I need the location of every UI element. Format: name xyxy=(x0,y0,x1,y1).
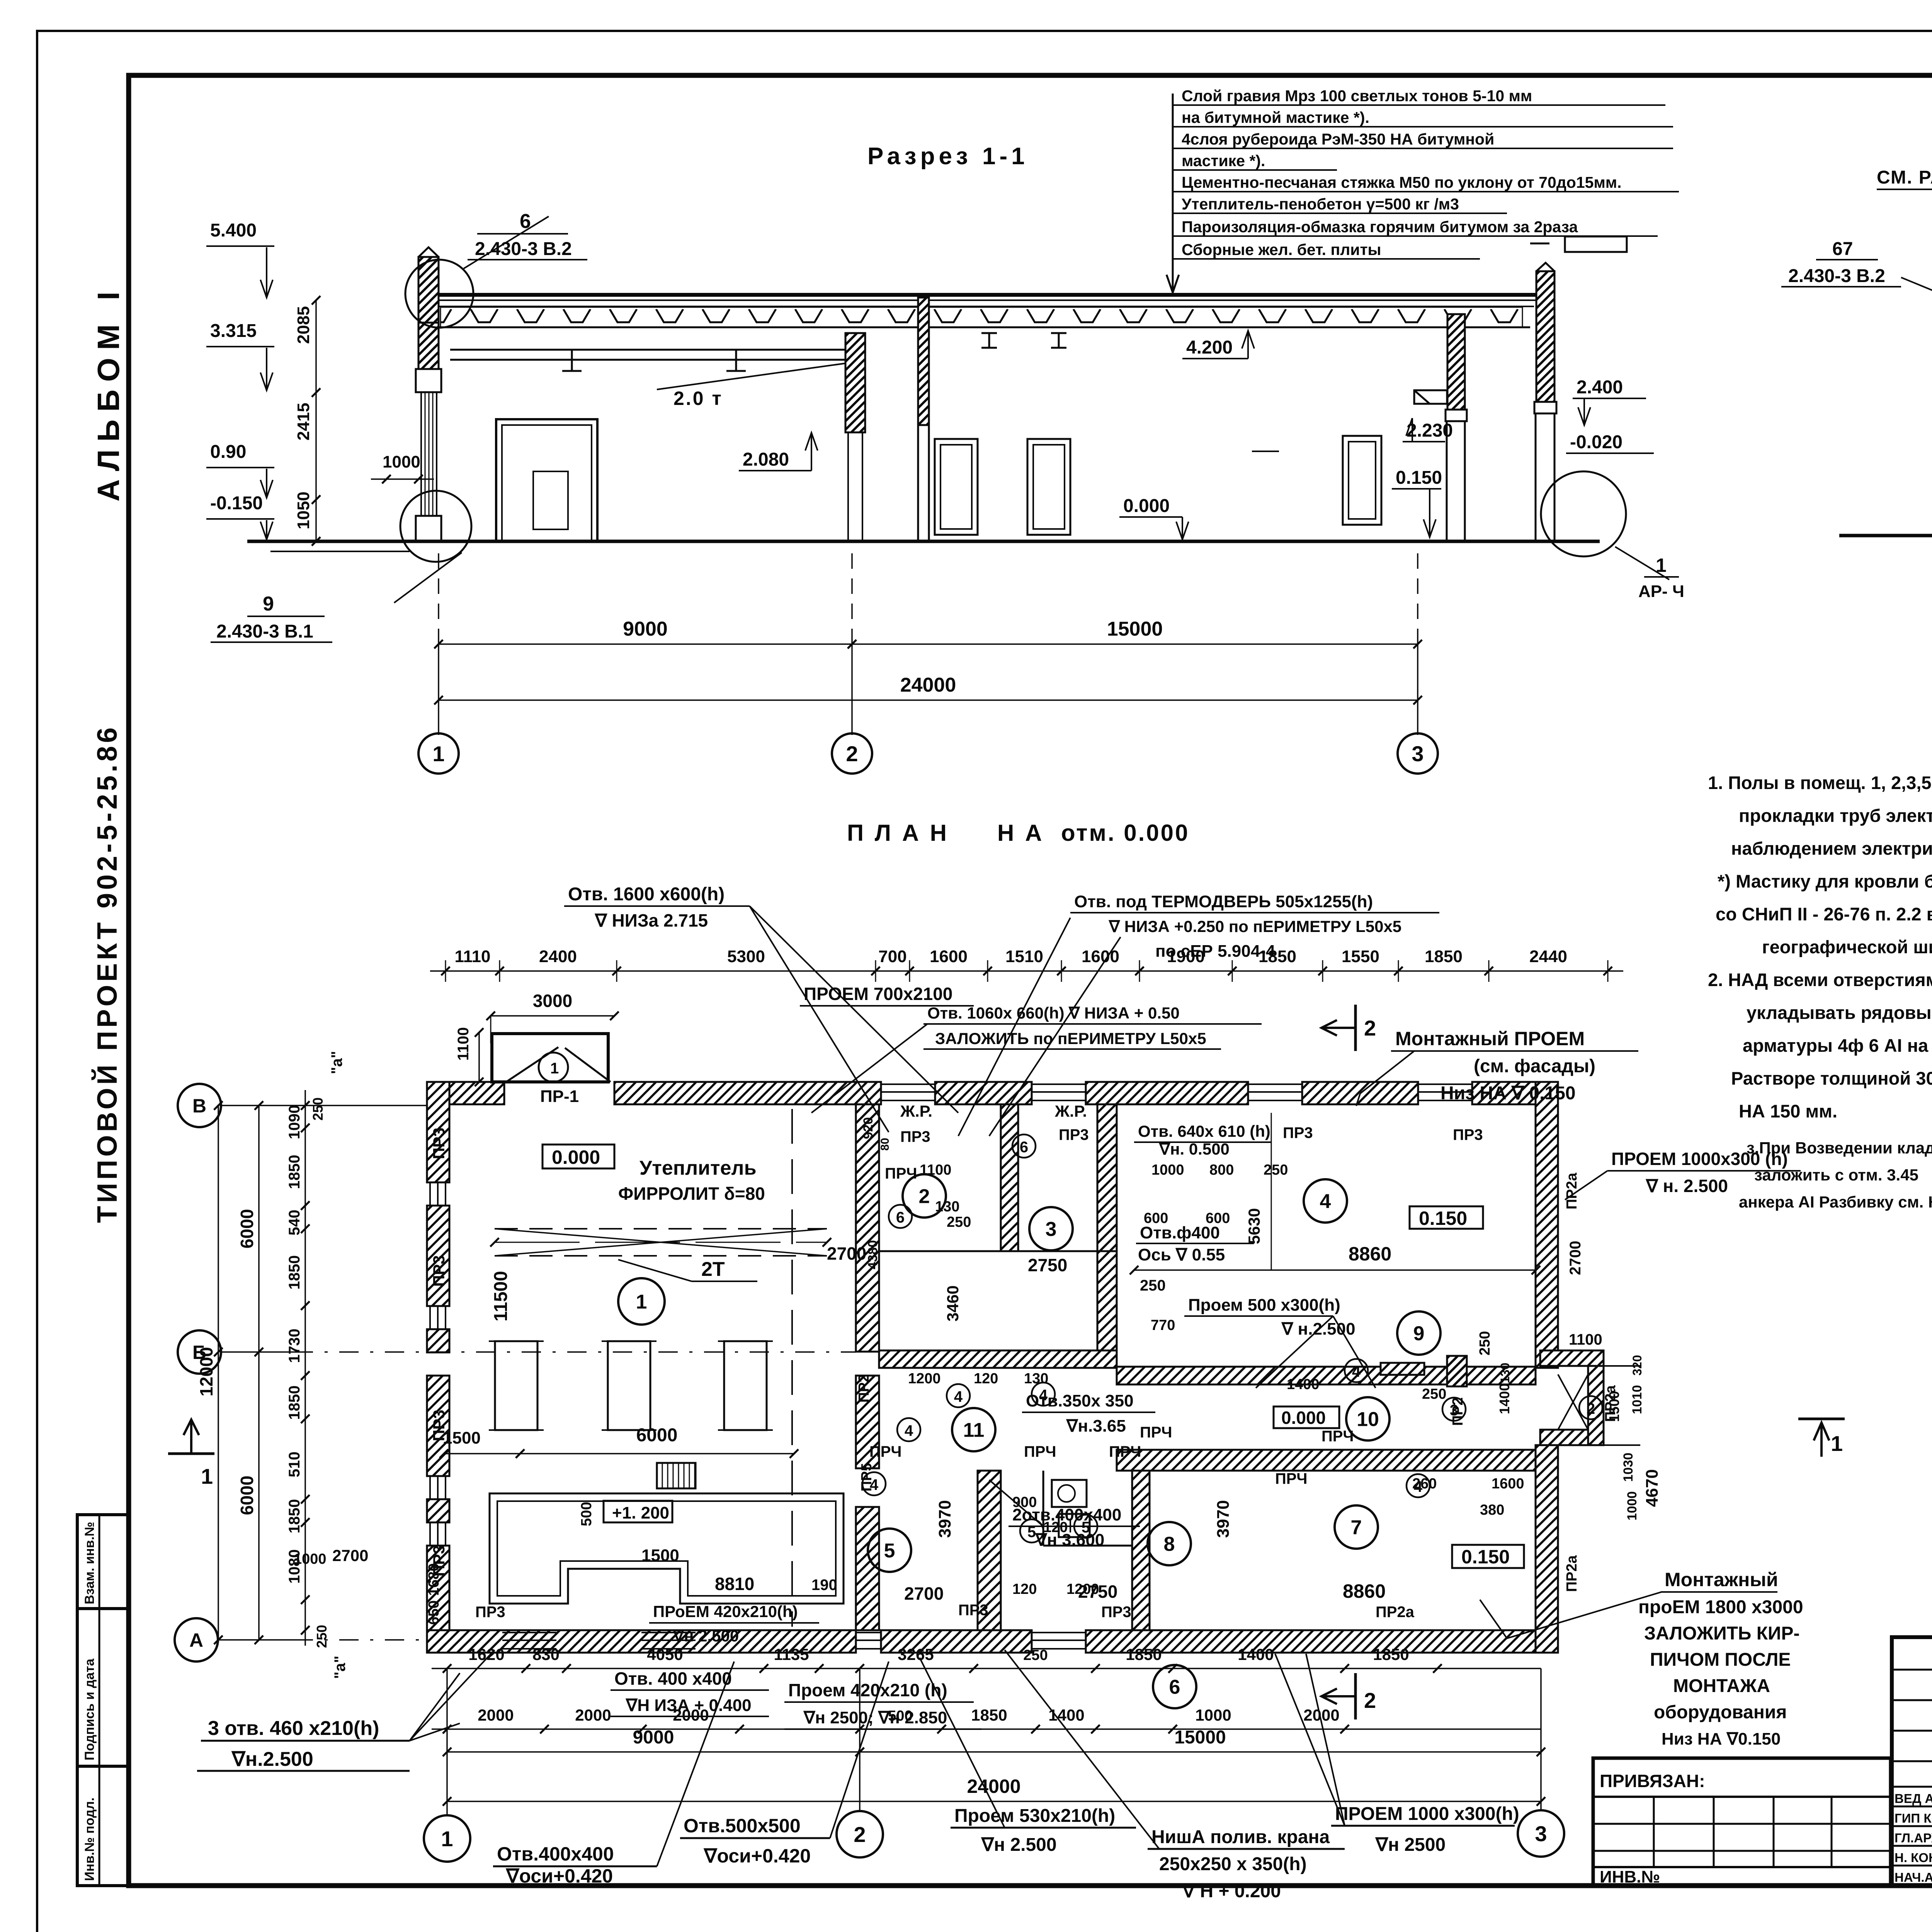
svg-text:Отв.400х400: Отв.400х400 xyxy=(497,1843,614,1865)
insulation legend box xyxy=(1565,236,1627,252)
svg-text:наблюдением электрика.: наблюдением электрика. xyxy=(1731,838,1932,859)
toilet fixtures xyxy=(1052,1480,1087,1507)
svg-text:-0.020: -0.020 xyxy=(1570,432,1622,452)
svg-text:1850: 1850 xyxy=(286,1499,303,1534)
vertical dim chain 2085/2415/1050 xyxy=(315,300,317,541)
svg-text:11500: 11500 xyxy=(491,1271,511,1321)
см. разрез 1-1 leader xyxy=(1877,189,1932,190)
svg-text:24000: 24000 xyxy=(900,674,956,696)
svg-text:3: 3 xyxy=(1046,1218,1057,1241)
svg-text:Н А: Н А xyxy=(997,820,1044,846)
svg-text:1000: 1000 xyxy=(1625,1491,1639,1520)
svg-text:8: 8 xyxy=(1164,1533,1175,1556)
plan inner walls bottom rooms xyxy=(978,1471,1001,1630)
svg-text:1000: 1000 xyxy=(1151,1162,1184,1178)
svg-text:заложить с отм. 3.45: заложить с отм. 3.45 xyxy=(1754,1166,1918,1184)
svg-text:ПРОЕМ 1000 х300(h): ПРОЕМ 1000 х300(h) xyxy=(1335,1804,1519,1824)
svg-text:мастике *).: мастике *). xyxy=(1182,152,1265,170)
svg-text:1500: 1500 xyxy=(641,1546,679,1565)
svg-text:250х250 х 350(h): 250х250 х 350(h) xyxy=(1159,1854,1307,1874)
section 1-1 right outer parapet wall xyxy=(1536,271,1554,402)
svg-text:Проем 420х210 (h): Проем 420х210 (h) xyxy=(788,1680,947,1700)
svg-text:510: 510 xyxy=(286,1452,303,1478)
machine hall crane rails dashed xyxy=(495,1228,827,1230)
svg-text:8810: 8810 xyxy=(715,1574,754,1594)
svg-text:ПРоЕМ 420х210(h): ПРоЕМ 420х210(h) xyxy=(653,1602,798,1621)
svg-text:Ж.Р.: Ж.Р. xyxy=(900,1102,932,1120)
svg-text:250: 250 xyxy=(1422,1386,1446,1402)
svg-text:∇н.3.65: ∇н.3.65 xyxy=(1066,1417,1126,1435)
svg-text:130: 130 xyxy=(1024,1371,1048,1387)
section 1-1 crane beam xyxy=(450,349,846,351)
svg-text:380: 380 xyxy=(1480,1502,1504,1518)
section 1-1 dim 24000 xyxy=(439,699,1418,701)
svg-text:-0.150: -0.150 xyxy=(210,493,263,514)
svg-text:1510: 1510 xyxy=(1005,947,1043,966)
svg-text:1600: 1600 xyxy=(1082,947,1119,966)
svg-text:0.90: 0.90 xyxy=(210,442,246,462)
title block main frame xyxy=(1892,1637,1932,1886)
svg-text:9000: 9000 xyxy=(623,618,668,640)
svg-text:1730: 1730 xyxy=(286,1329,303,1363)
svg-text:ПИЧОМ ПОСЛЕ: ПИЧОМ ПОСЛЕ xyxy=(1650,1650,1791,1670)
svg-text:+1. 200: +1. 200 xyxy=(612,1503,669,1522)
svg-text:ПР3: ПР3 xyxy=(430,1410,448,1441)
svg-text:ПР2а: ПР2а xyxy=(1376,1604,1415,1621)
svg-text:1400: 1400 xyxy=(1287,1376,1320,1393)
svg-text:ПР3: ПР3 xyxy=(1059,1126,1089,1143)
svg-text:830: 830 xyxy=(532,1645,560,1663)
plan dim 24000 xyxy=(447,1801,1541,1802)
svg-text:∇Н ИЗА + 0.400: ∇Н ИЗА + 0.400 xyxy=(625,1696,752,1715)
svg-text:2: 2 xyxy=(919,1185,930,1208)
machine hall platform +1.200 xyxy=(490,1493,844,1604)
svg-text:1850: 1850 xyxy=(1425,947,1463,966)
svg-text:∇н 2.500: ∇н 2.500 xyxy=(672,1627,739,1645)
title block stamp rows xyxy=(1892,1786,1932,1788)
svg-text:0.150: 0.150 xyxy=(1419,1207,1467,1229)
svg-text:2. НАД всеми отверстиями ши: 2. НАД всеми отверстиями шириной более 6… xyxy=(1708,969,1932,990)
svg-text:1600: 1600 xyxy=(930,947,968,966)
plan corridor walls xyxy=(1117,1367,1536,1384)
plan dim 3000 bump xyxy=(491,1015,614,1017)
svg-text:8860: 8860 xyxy=(1349,1243,1391,1265)
svg-text:ПР3: ПР3 xyxy=(430,1545,448,1577)
svg-text:2отв.400х400: 2отв.400х400 xyxy=(1012,1505,1121,1524)
svg-text:ГЛ.АРХ.пр: ГЛ.АРХ.пр xyxy=(1895,1831,1932,1845)
svg-text:0.000: 0.000 xyxy=(1281,1408,1326,1428)
svg-text:2000: 2000 xyxy=(478,1706,514,1724)
svg-text:ПРЧ: ПРЧ xyxy=(1321,1428,1354,1445)
plan text 0.000 machine hall xyxy=(543,1145,614,1168)
svg-text:11: 11 xyxy=(963,1419,985,1442)
svg-text:2750: 2750 xyxy=(1028,1255,1067,1275)
svg-text:1850: 1850 xyxy=(286,1255,303,1290)
svg-text:отм. 0.000: отм. 0.000 xyxy=(1061,820,1189,846)
svg-text:А: А xyxy=(189,1629,203,1651)
svg-text:арматуры 4ф 6 АI на цементно-: арматуры 4ф 6 АI на цементно-песчаном xyxy=(1743,1035,1932,1056)
svg-text:2415: 2415 xyxy=(294,403,313,440)
svg-text:НА 150 мм.: НА 150 мм. xyxy=(1739,1101,1837,1121)
svg-text:1400: 1400 xyxy=(1048,1706,1084,1724)
svg-text:Отв. под ТЕРМОДВЕРЬ 505х1255(h: Отв. под ТЕРМОДВЕРЬ 505х1255(h) xyxy=(1074,892,1373,911)
svg-text:"а": "а" xyxy=(332,1656,349,1679)
svg-text:В: В xyxy=(192,1095,206,1117)
svg-text:1000: 1000 xyxy=(1195,1706,1231,1724)
svg-text:на битумной мастике *).: на битумной мастике *). xyxy=(1182,109,1369,126)
svg-text:2.430-3 В.2: 2.430-3 В.2 xyxy=(1788,266,1885,286)
plan text 0.150 room 7 xyxy=(1452,1545,1524,1568)
svg-text:Монтажный ПРОЕМ: Монтажный ПРОЕМ xyxy=(1395,1028,1585,1049)
svg-text:3: 3 xyxy=(1412,742,1423,766)
svg-text:6000: 6000 xyxy=(636,1425,678,1446)
svg-text:3000: 3000 xyxy=(533,991,572,1011)
svg-text:24000: 24000 xyxy=(967,1776,1020,1797)
svg-text:1500: 1500 xyxy=(443,1429,481,1447)
svg-text:250: 250 xyxy=(1477,1331,1493,1355)
svg-text:1: 1 xyxy=(1831,1431,1843,1456)
svg-text:Отв. 1600 х600(h): Отв. 1600 х600(h) xyxy=(568,884,724,905)
svg-text:1: 1 xyxy=(432,742,444,766)
svg-text:∇оси+0.420: ∇оси+0.420 xyxy=(505,1865,613,1887)
svg-text:4: 4 xyxy=(954,1388,963,1405)
svg-text:∇н 2500: ∇н 2500 xyxy=(1375,1835,1446,1855)
svg-text:6000: 6000 xyxy=(237,1476,257,1515)
svg-text:1030: 1030 xyxy=(1621,1452,1636,1482)
section 1-1 lower dim lines 9000 / 15000 xyxy=(439,643,852,645)
svg-text:15000: 15000 xyxy=(1107,618,1163,640)
svg-text:250: 250 xyxy=(947,1214,971,1230)
machine hall lower dim 1500 6000 xyxy=(444,1453,520,1454)
svg-text:Проем 530х210(h): Проем 530х210(h) xyxy=(954,1806,1115,1826)
svg-text:250: 250 xyxy=(1023,1647,1048,1663)
plan bottom dim chains xyxy=(432,1668,1117,1669)
svg-text:1850: 1850 xyxy=(971,1706,1007,1724)
svg-text:8860: 8860 xyxy=(1343,1580,1386,1602)
svg-text:Низ НА ∇ 0.150: Низ НА ∇ 0.150 xyxy=(1440,1083,1576,1104)
svg-text:1: 1 xyxy=(201,1464,213,1488)
svg-text:МОНТАЖА: МОНТАЖА xyxy=(1673,1676,1770,1696)
svg-text:130: 130 xyxy=(1498,1363,1512,1383)
svg-text:320: 320 xyxy=(1630,1355,1644,1376)
section 2-2 ground line xyxy=(1839,534,1932,537)
привязан box xyxy=(1593,1758,1891,1886)
svg-text:1: 1 xyxy=(550,1060,559,1077)
svg-text:1100: 1100 xyxy=(920,1162,951,1178)
svg-text:9: 9 xyxy=(263,593,274,615)
svg-text:1400: 1400 xyxy=(1238,1645,1274,1663)
svg-text:80: 80 xyxy=(879,1138,891,1151)
svg-text:0.150: 0.150 xyxy=(1396,468,1442,488)
section 1-1 wall on axis 2 xyxy=(918,298,929,425)
svg-text:анкера АI Разбивку см. КШ-: анкера АI Разбивку см. КШ-4 xyxy=(1739,1193,1932,1211)
svg-text:Н. КОНТР: Н. КОНТР xyxy=(1895,1850,1932,1865)
svg-text:260: 260 xyxy=(1412,1476,1437,1492)
svg-text:Разрез 1-1: Разрез 1-1 xyxy=(867,143,1029,170)
svg-text:2: 2 xyxy=(1587,1400,1595,1417)
svg-text:ПР2: ПР2 xyxy=(1450,1397,1466,1426)
svg-text:4: 4 xyxy=(1320,1190,1331,1213)
svg-text:ПР3: ПР3 xyxy=(958,1602,988,1619)
plan right annex xyxy=(1540,1350,1604,1366)
svg-text:5.400: 5.400 xyxy=(210,220,257,241)
detail circle at parapet xyxy=(405,260,473,328)
svg-text:190: 190 xyxy=(811,1577,837,1594)
svg-text:250: 250 xyxy=(1264,1162,1288,1178)
svg-text:1550: 1550 xyxy=(1342,947,1379,966)
svg-text:6: 6 xyxy=(1169,1676,1180,1699)
leaders from термодверь to plan xyxy=(958,918,1070,1136)
svg-text:АР- Ч: АР- Ч xyxy=(1638,582,1684,601)
svg-text:АЛЬБОМ I: АЛЬБОМ I xyxy=(91,284,126,502)
svg-text:1600: 1600 xyxy=(1492,1476,1524,1492)
svg-text:2: 2 xyxy=(854,1822,866,1847)
svg-text:географической широты.: географической широты. xyxy=(1762,937,1932,957)
svg-text:∇ НИЗА +0.250 по пЕРИМЕТРУ L5: ∇ НИЗА +0.250 по пЕРИМЕТРУ L50х5 xyxy=(1108,917,1401,935)
svg-text:6: 6 xyxy=(1020,1139,1028,1156)
svg-text:6000: 6000 xyxy=(237,1209,257,1248)
svg-text:1080: 1080 xyxy=(286,1549,303,1584)
plan inner wall axis 2 vertical xyxy=(856,1104,879,1352)
svg-text:Пароизоляция-обмазка горячим б: Пароизоляция-обмазка горячим битумом за … xyxy=(1182,218,1578,236)
svg-text:0.000: 0.000 xyxy=(552,1146,600,1168)
platform stair xyxy=(657,1463,696,1488)
svg-text:130: 130 xyxy=(935,1199,959,1215)
plan outer walls xyxy=(427,1082,504,1104)
svg-text:ПРИВЯЗАН:: ПРИВЯЗАН: xyxy=(1600,1771,1705,1791)
svg-text:700: 700 xyxy=(878,947,906,966)
svg-text:∇ НИЗа 2.715: ∇ НИЗа 2.715 xyxy=(594,910,708,930)
plan bottom wall xyxy=(427,1630,856,1653)
svg-text:3970: 3970 xyxy=(935,1500,954,1538)
svg-text:∇н 2.500: ∇н 2.500 xyxy=(981,1835,1057,1855)
svg-text:Ж.Р.: Ж.Р. xyxy=(1054,1102,1087,1120)
svg-text:4670: 4670 xyxy=(1643,1469,1662,1507)
svg-text:1110: 1110 xyxy=(454,947,490,966)
svg-text:3 отв. 460 х210(h): 3 отв. 460 х210(h) xyxy=(208,1717,379,1740)
svg-text:770: 770 xyxy=(1151,1317,1175,1333)
svg-text:ЗАЛОЖИТЬ по пЕРИМЕТРУ L50х5: ЗАЛОЖИТЬ по пЕРИМЕТРУ L50х5 xyxy=(935,1029,1206,1048)
svg-text:0.150: 0.150 xyxy=(1461,1546,1510,1568)
svg-text:ПРЧ: ПРЧ xyxy=(869,1443,902,1460)
svg-text:2700: 2700 xyxy=(1567,1241,1584,1275)
svg-text:П Л А Н: П Л А Н xyxy=(847,820,949,846)
svg-text:120: 120 xyxy=(974,1371,998,1387)
plan left dim chains xyxy=(304,1090,306,1646)
svg-text:ПР2: ПР2 xyxy=(856,1374,872,1403)
svg-text:1: 1 xyxy=(636,1291,647,1313)
svg-text:3970: 3970 xyxy=(1214,1500,1233,1538)
svg-text:∇оси+0.420: ∇оси+0.420 xyxy=(703,1845,811,1867)
plan bottom axis balloons 1 2 3 xyxy=(424,1815,470,1862)
svg-text:6: 6 xyxy=(520,210,531,233)
svg-text:∇ Н + 0.200: ∇ Н + 0.200 xyxy=(1182,1881,1281,1901)
svg-text:ПРЧ: ПРЧ xyxy=(885,1165,917,1182)
svg-text:ПРЧ: ПРЧ xyxy=(1275,1470,1308,1487)
svg-text:250: 250 xyxy=(314,1625,330,1648)
svg-text:Отв. 1060х 660(h) ∇ НИЗА + 0: Отв. 1060х 660(h) ∇ НИЗА + 0.50 xyxy=(927,1004,1180,1022)
svg-text:3265: 3265 xyxy=(898,1645,934,1663)
svg-text:Подпись и дата: Подпись и дата xyxy=(82,1658,97,1760)
svg-text:*) Мастику для кровли брать: *) Мастику для кровли брать в соответств… xyxy=(1718,871,1932,891)
svg-text:ПР3: ПР3 xyxy=(1453,1126,1483,1143)
svg-text:Низ НА ∇0.150: Низ НА ∇0.150 xyxy=(1662,1730,1781,1748)
svg-text:3460: 3460 xyxy=(944,1286,962,1321)
svg-text:2Т: 2Т xyxy=(701,1258,725,1281)
svg-text:Отв. 640х 610 (h): Отв. 640х 610 (h) xyxy=(1138,1122,1270,1140)
svg-text:1200: 1200 xyxy=(1066,1581,1099,1597)
svg-text:ПР3: ПР3 xyxy=(430,1255,448,1287)
plan top dim chain xyxy=(430,960,1623,982)
svg-text:1850: 1850 xyxy=(286,1155,303,1189)
svg-text:4слоя рубероида РэМ-350 НА: 4слоя рубероида РэМ-350 НА битумной xyxy=(1182,130,1494,148)
svg-text:2.230: 2.230 xyxy=(1406,420,1453,441)
svg-text:Инв.№ подл.: Инв.№ подл. xyxy=(82,1798,97,1881)
room 4 dim line 8860 xyxy=(1130,1113,1540,1274)
svg-text:ИНВ.№: ИНВ.№ xyxy=(1600,1867,1660,1886)
svg-text:2000: 2000 xyxy=(575,1706,611,1724)
svg-text:со СНиП II - 26-76 п. 2.2 в: со СНиП II - 26-76 п. 2.2 в зависимости … xyxy=(1716,904,1932,924)
svg-text:5300: 5300 xyxy=(727,947,765,966)
svg-text:1200: 1200 xyxy=(908,1371,941,1387)
svg-text:1135: 1135 xyxy=(774,1645,809,1663)
svg-text:15000: 15000 xyxy=(1174,1727,1226,1748)
svg-text:1010: 1010 xyxy=(1630,1385,1645,1414)
svg-text:2085: 2085 xyxy=(294,306,313,344)
svg-text:4: 4 xyxy=(905,1422,913,1439)
svg-text:2: 2 xyxy=(846,742,858,766)
left margin stamp boxes xyxy=(77,1515,129,1609)
svg-text:Проем 500 x300(h): Проем 500 x300(h) xyxy=(1188,1296,1340,1315)
svg-text:2440: 2440 xyxy=(1529,947,1567,966)
svg-text:Цементно-песчаная стяжка М50 п: Цементно-песчаная стяжка М50 по уклону о… xyxy=(1182,173,1622,191)
svg-text:1100: 1100 xyxy=(455,1027,472,1061)
section mark 1 left xyxy=(168,1452,214,1455)
svg-text:9: 9 xyxy=(1413,1323,1425,1345)
svg-text:2700: 2700 xyxy=(827,1243,866,1264)
svg-text:ВЕД АРХ.: ВЕД АРХ. xyxy=(1895,1791,1932,1806)
svg-text:2.400: 2.400 xyxy=(1577,377,1623,398)
svg-text:6: 6 xyxy=(896,1209,905,1226)
section mark 1 right xyxy=(1798,1418,1845,1420)
svg-text:СМ. РАЗРЕЗ 1-1: СМ. РАЗРЕЗ 1-1 xyxy=(1877,167,1932,188)
svg-text:прокладки труб электропровод: прокладки труб электропроводки под xyxy=(1739,805,1932,826)
svg-text:5: 5 xyxy=(884,1540,895,1562)
section mark 2 top xyxy=(1354,1005,1357,1051)
svg-text:1. Полы в помещ. 1, 2,3,5 сде: 1. Полы в помещ. 1, 2,3,5 сделать после xyxy=(1708,772,1932,793)
svg-text:Утеплитель: Утеплитель xyxy=(639,1157,757,1179)
svg-text:Монтажный: Монтажный xyxy=(1665,1569,1778,1590)
svg-text:1090: 1090 xyxy=(286,1105,303,1139)
svg-text:Б: Б xyxy=(192,1342,206,1363)
svg-text:з.При Возведении кладки: з.При Возведении кладки xyxy=(1747,1139,1932,1157)
svg-text:250: 250 xyxy=(310,1097,326,1121)
section 1-1 right inner pier xyxy=(1447,314,1465,410)
svg-text:ЗАЛОЖИТЬ КИР-: ЗАЛОЖИТЬ КИР- xyxy=(1644,1623,1800,1644)
plan ПР-1 bump entry xyxy=(492,1034,608,1082)
section 1-1 middle column hatched xyxy=(845,333,865,432)
detail circle at wall base xyxy=(400,491,471,562)
svg-text:"а": "а" xyxy=(328,1051,345,1074)
roof layers leader line xyxy=(1172,94,1174,293)
svg-text:1400: 1400 xyxy=(1497,1383,1512,1414)
svg-text:ПР3: ПР3 xyxy=(1101,1604,1131,1621)
section 1-1 left wall below xyxy=(418,323,439,369)
svg-text:1000: 1000 xyxy=(383,452,420,471)
plan text 0.150 room 4 xyxy=(1410,1206,1483,1229)
svg-text:2: 2 xyxy=(1364,1016,1376,1040)
section 1-1 left parapet wall xyxy=(418,257,439,323)
svg-text:4050: 4050 xyxy=(647,1645,683,1663)
plan dim 9000 15000 bottom xyxy=(447,1751,860,1753)
svg-text:∇ н. 2.500: ∇ н. 2.500 xyxy=(1645,1176,1728,1196)
svg-text:540: 540 xyxy=(286,1210,303,1236)
section mark 2 bottom xyxy=(1354,1673,1357,1719)
svg-text:ПРЧ: ПРЧ xyxy=(1109,1443,1141,1460)
svg-text:10: 10 xyxy=(1357,1408,1379,1431)
svg-text:120: 120 xyxy=(1012,1581,1037,1597)
detail circle right end xyxy=(1541,471,1626,556)
plan axis balloons В Б А xyxy=(178,1084,221,1127)
svg-text:Отв. 400 х400: Отв. 400 х400 xyxy=(614,1668,732,1689)
svg-text:2.430-3 В.1: 2.430-3 В.1 xyxy=(216,621,313,642)
svg-text:Отв.ф400: Отв.ф400 xyxy=(1140,1223,1220,1242)
svg-text:∇н.2.500: ∇н.2.500 xyxy=(231,1748,313,1770)
section 1-1 footing marks xyxy=(1252,451,1279,452)
svg-text:1050: 1050 xyxy=(294,492,313,529)
svg-text:1850: 1850 xyxy=(286,1386,303,1420)
section 1-1 gate in left bay xyxy=(496,419,597,541)
svg-text:(см. фасады): (см. фасады) xyxy=(1474,1056,1595,1077)
section 1-1 roof slab xyxy=(425,293,1546,297)
svg-text:∇н 2500; ∇н 2.850: ∇н 2500; ∇н 2.850 xyxy=(803,1708,947,1727)
svg-text:∇н 3.600: ∇н 3.600 xyxy=(1035,1531,1104,1549)
svg-text:ПР3: ПР3 xyxy=(900,1128,930,1145)
section 1-1 doors right bays xyxy=(935,439,978,535)
svg-text:укладывать рядовые перемычки: укладывать рядовые перемычки из xyxy=(1747,1002,1932,1023)
svg-text:4380: 4380 xyxy=(866,1240,880,1269)
svg-text:Сборные жел. бет. плиты: Сборные жел. бет. плиты xyxy=(1182,241,1381,259)
svg-text:Отв.350х 350: Отв.350х 350 xyxy=(1026,1391,1134,1410)
svg-text:2700: 2700 xyxy=(904,1583,944,1604)
svg-text:ПРОЕМ 700х2100: ПРОЕМ 700х2100 xyxy=(804,984,952,1004)
svg-text:ТИПОВОЙ ПРОЕКТ 902-5-25.86: ТИПОВОЙ ПРОЕКТ 902-5-25.86 xyxy=(91,724,123,1223)
svg-text:Ось ∇ 0.55: Ось ∇ 0.55 xyxy=(1138,1245,1225,1264)
svg-text:4: 4 xyxy=(1352,1363,1361,1380)
svg-text:Растворе толщиной 30 мм с: Растворе толщиной 30 мм с опиранием xyxy=(1731,1068,1932,1088)
svg-text:ПР3: ПР3 xyxy=(1283,1124,1313,1141)
svg-text:2: 2 xyxy=(1364,1688,1376,1713)
section 1-1 axis balloons 1 2 3 xyxy=(0,0,0,0)
plan right wall xyxy=(1536,1082,1558,1368)
plan inner walls rooms 2-3 xyxy=(1001,1104,1018,1251)
tambour 9 wall xyxy=(1447,1356,1467,1386)
svg-text:2.430-3 В.2: 2.430-3 В.2 xyxy=(475,239,572,259)
svg-text:1100: 1100 xyxy=(1569,1331,1602,1348)
svg-text:1850: 1850 xyxy=(1373,1645,1409,1663)
svg-text:ПР5: ПР5 xyxy=(859,1463,875,1492)
svg-text:ФИРРОЛИТ δ=80: ФИРРОЛИТ δ=80 xyxy=(618,1184,765,1204)
svg-text:ПР-1: ПР-1 xyxy=(540,1087,579,1106)
svg-text:500: 500 xyxy=(578,1502,595,1526)
svg-text:оборудования: оборудования xyxy=(1654,1702,1787,1723)
svg-text:4.200: 4.200 xyxy=(1186,337,1233,358)
svg-text:1620: 1620 xyxy=(468,1645,504,1663)
svg-text:2.080: 2.080 xyxy=(743,449,789,470)
svg-text:67: 67 xyxy=(1832,239,1853,259)
svg-text:проЕМ 1800 х3000: проЕМ 1800 х3000 xyxy=(1638,1597,1803,1617)
svg-text:ПРЧ: ПРЧ xyxy=(1140,1424,1172,1441)
